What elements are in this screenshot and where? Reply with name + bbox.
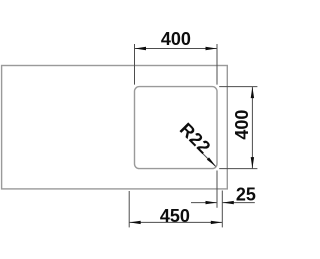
svg-text:400: 400 bbox=[161, 29, 191, 49]
radius leader R22: line bbox=[199, 150, 216, 167]
dim 400 top: left arrowhead bbox=[135, 47, 146, 50]
dim 400 right: top arrowhead bbox=[251, 87, 254, 98]
dim 25: left arrowhead (points right) bbox=[206, 201, 217, 204]
dim 25: left tail line bbox=[191, 202, 217, 204]
dim 450: right arrowhead bbox=[211, 221, 222, 224]
dim 400 top: right arrowhead bbox=[206, 47, 217, 50]
dim 400 top: dimension line bbox=[135, 48, 218, 50]
dim 400 right: dimension line bbox=[251, 87, 253, 169]
dim 400 right: bottom arrowhead bbox=[251, 157, 254, 168]
dim 400 right: extension line bottom bbox=[219, 168, 257, 170]
dim 25: right arrowhead (points left) bbox=[223, 201, 234, 204]
dim 25: right tail line bbox=[222, 202, 255, 204]
dim 400 top: extension line left bbox=[134, 44, 136, 85]
dim 450: extension line left bbox=[128, 191, 130, 227]
sink outer body rectangle bbox=[2, 66, 228, 189]
svg-text:450: 450 bbox=[160, 206, 190, 226]
radius leader R22: arrowhead bbox=[207, 157, 216, 166]
dim 25: extension line B bbox=[221, 191, 223, 228]
dim 400 right: extension line top bbox=[219, 86, 257, 88]
dim 450: dimension line bbox=[129, 221, 222, 223]
dim 25: extension line A (bowl edge) bbox=[216, 171, 218, 208]
dim 450: left arrowhead bbox=[129, 221, 140, 224]
svg-text:400: 400 bbox=[232, 110, 252, 140]
svg-text:25: 25 bbox=[236, 184, 256, 204]
bowl rounded square bbox=[135, 87, 218, 169]
dim 400 top: extension line right bbox=[216, 44, 218, 85]
